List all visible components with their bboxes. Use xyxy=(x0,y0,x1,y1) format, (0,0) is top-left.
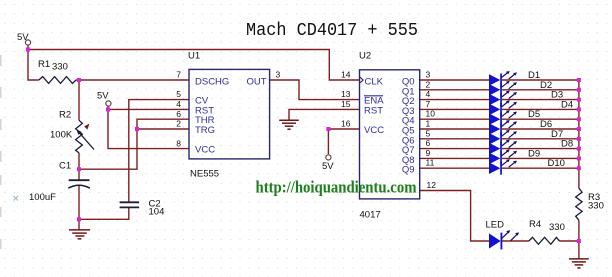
wire LED bus vertical xyxy=(578,80,580,188)
svg-text:C1: C1 xyxy=(59,161,71,172)
svg-text:8: 8 xyxy=(176,139,181,149)
wire Q9 LED to bus xyxy=(502,167,579,169)
svg-text:U1: U1 xyxy=(188,51,200,62)
wire R3 to junction xyxy=(578,220,580,241)
wire Q2 LED to bus xyxy=(502,99,579,101)
svg-text:LED: LED xyxy=(486,220,505,231)
svg-text:4017: 4017 xyxy=(360,210,381,221)
svg-text:http://hoiquandientu.com: http://hoiquandientu.com xyxy=(256,178,417,197)
junction bus D7 xyxy=(577,137,581,141)
svg-text:330: 330 xyxy=(52,62,68,73)
LED D5 xyxy=(489,110,517,126)
wire R2 to C1 xyxy=(78,153,80,180)
svg-text:12: 12 xyxy=(427,180,437,190)
junction bus D9 xyxy=(577,156,581,160)
left edge marks xyxy=(0,55,2,249)
junction R1/R2/pin7 xyxy=(77,78,81,82)
wire Q7 row xyxy=(420,148,489,150)
wire CV pin5 to C2 xyxy=(129,100,189,202)
resistor R4 body xyxy=(529,237,559,244)
svg-text:VCC: VCC xyxy=(195,145,215,156)
R2 arrow head xyxy=(84,124,89,130)
junction bus D3 xyxy=(577,98,581,102)
svg-text:3: 3 xyxy=(426,70,431,80)
svg-text:16: 16 xyxy=(341,119,351,129)
svg-text:15: 15 xyxy=(341,99,351,109)
svg-text:5: 5 xyxy=(426,128,431,138)
op-amp U1 box (NE555) xyxy=(189,69,270,158)
wire Q4 LED to bus xyxy=(502,118,579,120)
svg-text:OUT: OUT xyxy=(247,77,267,88)
svg-text:14: 14 xyxy=(341,70,351,80)
junction bus D6 xyxy=(577,127,581,131)
svg-text:9: 9 xyxy=(426,148,431,158)
svg-text:4: 4 xyxy=(426,89,431,99)
wire Q6 LED to bus xyxy=(502,138,579,140)
wire R1 right lead to pin7 xyxy=(76,79,189,81)
LED D9 xyxy=(489,149,517,165)
wire Q8 row xyxy=(420,157,489,159)
junction C1 ground xyxy=(77,217,81,221)
wire junction to ground xyxy=(578,241,580,259)
wire pin12 to LED xyxy=(420,191,489,242)
svg-text:330: 330 xyxy=(588,201,604,212)
capacitor C1 top plate xyxy=(69,179,90,181)
ground G2 under 4017 RST xyxy=(279,120,299,129)
capacitor C2 plates xyxy=(120,201,140,203)
svg-text:R4: R4 xyxy=(529,219,541,230)
wire 5V2 stub xyxy=(107,107,109,110)
LED D10 xyxy=(489,159,517,175)
svg-text:NE555: NE555 xyxy=(190,169,219,180)
LED D3 xyxy=(489,91,517,107)
svg-text:4: 4 xyxy=(176,99,181,109)
ENA overline xyxy=(364,95,383,97)
svg-text:104: 104 xyxy=(149,207,165,218)
svg-text:TRG: TRG xyxy=(195,125,215,136)
svg-text:D1: D1 xyxy=(528,70,540,81)
svg-text:3: 3 xyxy=(276,70,281,80)
wire TRG pin2 xyxy=(137,128,189,130)
svg-text:13: 13 xyxy=(341,89,351,99)
svg-text:5V: 5V xyxy=(97,91,109,102)
svg-text:R2: R2 xyxy=(59,110,71,121)
wire VCC pin16 to 5V3 xyxy=(328,129,359,154)
wire Q9 row xyxy=(420,167,489,169)
capacitor C1 curved plate xyxy=(68,185,90,188)
svg-text:D9: D9 xyxy=(528,148,540,159)
wire Q1 row xyxy=(420,89,489,91)
svg-text:330: 330 xyxy=(549,222,565,233)
svg-text:5V: 5V xyxy=(322,161,334,172)
wire C1 to ground xyxy=(78,185,80,229)
junction bus D4 xyxy=(577,107,581,111)
LED D6 xyxy=(489,120,517,136)
svg-text:U2: U2 xyxy=(359,51,371,62)
svg-text:7: 7 xyxy=(176,70,181,80)
svg-text:100K: 100K xyxy=(50,130,73,141)
LED bottom carry xyxy=(489,230,519,249)
svg-text:VCC: VCC xyxy=(364,125,384,136)
junction bus D10 xyxy=(577,166,581,170)
svg-text:Mach CD4017 + 555: Mach CD4017 + 555 xyxy=(246,20,418,41)
wire Q4 row xyxy=(420,118,489,120)
LED D1 xyxy=(489,71,517,87)
wire RST pin15 to ground xyxy=(289,109,360,120)
wire Q3 LED to bus xyxy=(502,108,579,110)
wire THR pin6 xyxy=(137,119,189,129)
svg-text:D4: D4 xyxy=(561,99,573,110)
clock chevron pin14 xyxy=(360,77,364,83)
LED D2 xyxy=(489,81,517,97)
junction bus D2 xyxy=(577,88,581,92)
svg-text:5: 5 xyxy=(176,89,181,99)
wire R4 to junction xyxy=(559,240,579,242)
svg-text:D5: D5 xyxy=(528,109,540,120)
svg-text:6: 6 xyxy=(176,109,181,119)
svg-text:RST: RST xyxy=(364,105,383,116)
junction bus D1 xyxy=(577,78,581,82)
wire Q0 LED to bus xyxy=(502,79,579,81)
ground G1 under C1 xyxy=(69,230,90,239)
svg-text:100uF: 100uF xyxy=(29,192,56,203)
wire Q1 LED to bus xyxy=(502,89,579,91)
resistor R1 body xyxy=(39,77,76,84)
svg-text:CLK: CLK xyxy=(365,77,384,88)
svg-text:10: 10 xyxy=(426,109,436,119)
junction C1 top xyxy=(77,167,81,171)
wire 5V1 stub down to R1 xyxy=(28,46,39,81)
wire Q7 LED to bus xyxy=(502,148,579,150)
wire LED to R4 xyxy=(502,240,529,242)
svg-text:7: 7 xyxy=(426,99,431,109)
wire Q6 row xyxy=(420,138,489,140)
svg-text:1: 1 xyxy=(426,119,431,129)
wire junction down to R2 xyxy=(78,80,80,120)
svg-text:6: 6 xyxy=(426,138,431,148)
resistor R2 pot body xyxy=(76,120,83,153)
LED D4 xyxy=(489,100,517,116)
wire C1 top to THR/TRG vertical xyxy=(79,129,137,169)
power 5V3 under 4017 xyxy=(326,155,331,160)
junction VCC16 5V xyxy=(326,127,330,131)
no-ERC cross xyxy=(14,196,19,201)
wire Q0 row xyxy=(420,79,489,81)
LED D7 xyxy=(489,130,517,146)
wire Q8 LED to bus xyxy=(502,157,579,159)
R2 wiper arrow xyxy=(78,132,94,150)
power 5V1 top left xyxy=(25,40,30,45)
wire Q2 row xyxy=(420,99,489,101)
wire Q3 row xyxy=(420,108,489,110)
junction bus D5 xyxy=(577,117,581,121)
resistor R3 body xyxy=(576,188,582,220)
power 5V2 mid left xyxy=(106,101,111,106)
svg-text:11: 11 xyxy=(426,158,435,168)
junction THR/TRG xyxy=(135,127,139,131)
junction 5V rail xyxy=(26,48,30,52)
svg-text:DSCHG: DSCHG xyxy=(195,77,229,88)
wire OUT pin3 to ENA pin13 xyxy=(270,80,360,100)
wire Q5 LED to bus xyxy=(502,128,579,130)
junction bus D8 xyxy=(577,147,581,151)
junction R3/R4 ground xyxy=(577,239,581,243)
svg-text:5V: 5V xyxy=(17,32,29,43)
svg-text:D8: D8 xyxy=(561,139,573,150)
wire Q5 row xyxy=(420,128,489,130)
svg-text:D10: D10 xyxy=(548,158,565,169)
svg-text:R1: R1 xyxy=(38,59,50,70)
wire RST pin4 xyxy=(108,108,189,110)
junction 5V pin4/pin8 xyxy=(106,107,110,111)
svg-text:Q9: Q9 xyxy=(402,165,415,176)
wire 5V2 down to VCC pin8 xyxy=(108,109,189,148)
svg-text:2: 2 xyxy=(426,79,431,89)
LED D8 xyxy=(489,140,517,156)
op-amp U2 box (4017) xyxy=(360,70,420,199)
svg-text:2: 2 xyxy=(176,119,181,129)
wire C2 bottom to ground wire xyxy=(79,207,129,219)
ground G3 bottom right xyxy=(569,259,589,268)
wire 5V rail top xyxy=(28,50,360,81)
